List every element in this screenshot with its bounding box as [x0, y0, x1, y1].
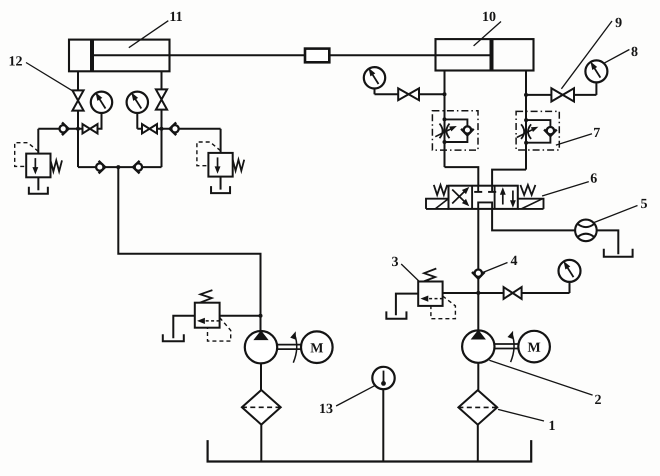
svg-text:8: 8 [631, 45, 638, 60]
svg-text:7: 7 [593, 126, 600, 141]
svg-text:13: 13 [319, 402, 333, 417]
svg-text:12: 12 [8, 54, 22, 69]
svg-text:11: 11 [169, 10, 182, 25]
svg-text:M: M [310, 341, 323, 356]
svg-text:4: 4 [510, 254, 517, 269]
svg-text:10: 10 [482, 10, 496, 25]
svg-text:5: 5 [640, 197, 647, 212]
svg-text:3: 3 [391, 255, 398, 270]
svg-text:9: 9 [615, 16, 622, 31]
svg-text:1: 1 [548, 419, 555, 434]
svg-text:M: M [527, 341, 540, 356]
svg-text:6: 6 [590, 172, 597, 187]
svg-text:2: 2 [594, 393, 601, 408]
